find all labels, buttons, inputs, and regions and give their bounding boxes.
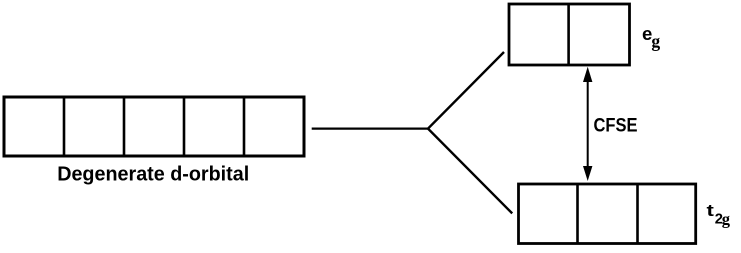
svg-text:g: g (651, 31, 660, 51)
svg-text:CFSE: CFSE (594, 115, 638, 137)
svg-text:t: t (707, 201, 715, 220)
svg-text:Degenerate d-orbital: Degenerate d-orbital (57, 164, 249, 186)
svg-text:g: g (722, 209, 731, 228)
